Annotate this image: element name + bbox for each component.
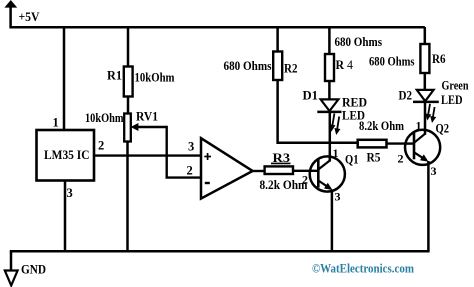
wire R2 to +5V rail	[276, 27, 279, 52]
svg-text:680 Ohms: 680 Ohms	[224, 59, 272, 73]
svg-text:Q1: Q1	[345, 152, 359, 167]
svg-text:2: 2	[398, 152, 404, 166]
ground symbol	[5, 251, 18, 286]
svg-text:680 Ohms: 680 Ohms	[369, 55, 415, 69]
wire R4 to +5V rail	[328, 27, 331, 55]
svg-text:R1: R1	[107, 68, 122, 83]
wire Q2 emitter to ground rail	[427, 161, 430, 251]
wire LM35 pin 3 to ground rail	[64, 180, 67, 251]
D1 value RED LED	[342, 96, 367, 123]
svg-text:2: 2	[302, 173, 308, 187]
wire RV1 bottom to ground rail	[126, 142, 129, 252]
svg-text:1: 1	[416, 119, 422, 133]
LED D1	[317, 99, 341, 135]
LM35 IC	[37, 130, 95, 181]
+5V power symbol	[4, 0, 17, 27]
LED D2	[413, 90, 439, 123]
resistor R2	[273, 52, 282, 81]
resistor R4	[325, 54, 334, 81]
op-amp U1	[201, 138, 253, 198]
svg-text:LED: LED	[441, 93, 463, 107]
wire R3 to Q1 base (inside circle)	[309, 170, 319, 172]
ground rail wire	[10, 250, 430, 253]
wire R6 to LED D2	[424, 73, 427, 91]
wire +5V rail to R1	[127, 27, 130, 67]
wire RV1 wiper to op-amp inverting input	[167, 126, 201, 178]
svg-text:8.2k Ohm: 8.2k Ohm	[359, 119, 404, 133]
wire R4 to LED D1	[328, 81, 331, 100]
wire R1 to RV1	[127, 97, 130, 115]
svg-text:3: 3	[67, 186, 73, 200]
transistor Q2	[405, 130, 440, 165]
resistor R6	[420, 44, 429, 73]
potentiometer RV1	[124, 114, 131, 142]
svg-text:3: 3	[431, 164, 437, 178]
svg-text:10kOhm: 10kOhm	[135, 70, 175, 85]
wire D1 cathode to Q1 collector	[329, 111, 332, 162]
svg-text:R5: R5	[367, 150, 381, 165]
svg-text:LM35 IC: LM35 IC	[44, 147, 90, 162]
wire LM35 pin 2 to op-amp non-inverting input	[94, 154, 201, 156]
svg-text:2: 2	[187, 164, 193, 178]
svg-text:©WatElectronics.com: ©WatElectronics.com	[312, 261, 414, 276]
svg-text:GND: GND	[21, 262, 46, 277]
svg-text:D2: D2	[399, 89, 413, 103]
svg-text:1: 1	[333, 146, 339, 160]
wire R2 bottom to R5 junction	[278, 80, 358, 143]
wire R5 to Q2 base	[387, 142, 415, 144]
svg-text:R2: R2	[284, 61, 298, 76]
svg-text:Q2: Q2	[436, 121, 450, 136]
wire Q1 emitter to ground rail	[331, 190, 334, 252]
resistor R5	[358, 140, 387, 148]
svg-text:R 4: R 4	[336, 57, 354, 72]
svg-text:3: 3	[335, 190, 341, 204]
R3 label	[271, 150, 291, 165]
wire R5 to Q2 base (inside circle)	[405, 142, 414, 144]
wire +5V rail to LM35 pin 1	[63, 27, 66, 130]
svg-text:R6: R6	[432, 51, 446, 66]
svg-text:2: 2	[98, 139, 104, 153]
svg-text:+5V: +5V	[19, 9, 41, 24]
wire R3 to Q1 base	[293, 170, 319, 172]
wire op-amp output to R3	[252, 170, 265, 172]
D2 value Green LED	[441, 79, 469, 108]
svg-text:Green: Green	[442, 79, 469, 93]
resistor R3	[265, 166, 293, 174]
svg-text:3: 3	[188, 140, 194, 154]
RV1 wiper arrow	[131, 123, 167, 131]
wire +5V rail	[9, 26, 424, 29]
svg-text:RED: RED	[342, 96, 367, 110]
wire D2 cathode to Q2 collector	[424, 101, 427, 135]
svg-text:1: 1	[53, 116, 59, 130]
resistor R1	[124, 67, 133, 97]
svg-text:8.2k Ohm: 8.2k Ohm	[260, 177, 308, 192]
svg-text:10kOhm: 10kOhm	[85, 110, 124, 125]
svg-text:RV1: RV1	[136, 109, 158, 124]
svg-text:D1: D1	[303, 89, 319, 103]
transistor Q1	[310, 156, 345, 191]
wire R6 to +5V rail	[424, 27, 427, 45]
svg-text:680 Ohms: 680 Ohms	[335, 35, 383, 49]
